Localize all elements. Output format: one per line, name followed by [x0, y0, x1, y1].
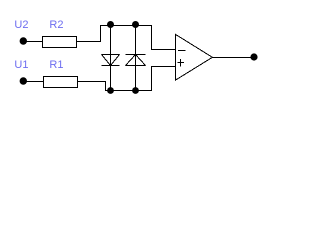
svg-text:U2: U2 — [14, 19, 28, 31]
svg-text:R1: R1 — [49, 59, 63, 71]
svg-text:R2: R2 — [49, 19, 63, 31]
svg-text:U1: U1 — [14, 59, 28, 71]
